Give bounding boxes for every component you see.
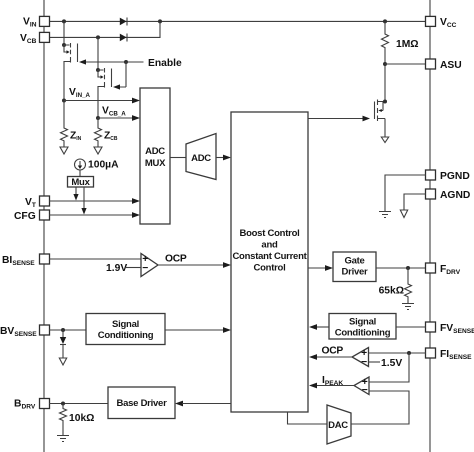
svg-text:Driver: Driver — [342, 267, 369, 278]
svg-text:1.9V: 1.9V — [106, 263, 127, 274]
svg-text:ADC: ADC — [191, 153, 211, 164]
node VCB junction — [96, 35, 100, 39]
wire IPEAK out — [309, 383, 354, 389]
wire CFG to ADC MUX — [49, 212, 140, 218]
label 1.5V — [381, 358, 402, 369]
wire Signal Conditioning F out — [309, 324, 329, 330]
pin pad AGND — [426, 189, 436, 199]
wire Mux to VT line — [73, 187, 78, 201]
wire Gate Driver to FDRV — [376, 267, 426, 269]
label 10k — [69, 413, 94, 424]
label IPEAK — [322, 375, 343, 387]
resistor 10k — [60, 404, 67, 436]
node BDRV junction — [61, 402, 65, 406]
ground arrow ZIN — [60, 147, 68, 154]
wire FVSENSE to Signal Conditioning F — [396, 326, 426, 328]
svg-text:ADC: ADC — [145, 146, 165, 157]
wire VCB_A to ADC MUX — [98, 115, 140, 121]
wire Signal Conditioning B out — [165, 327, 231, 333]
wire BDRV to Base Driver — [49, 403, 108, 405]
wire 1.9V to OCP — [126, 267, 141, 269]
wire control to DAC — [288, 412, 328, 424]
svg-text:Gate: Gate — [344, 256, 364, 267]
node VIN-VCB join — [158, 19, 162, 23]
block Base Driver — [108, 387, 175, 419]
svg-text:Control: Control — [253, 263, 285, 274]
ground arrow ZCB — [94, 147, 102, 154]
block Mux — [68, 177, 94, 189]
wire control block to Base Driver — [175, 401, 231, 407]
svg-text:−: − — [142, 263, 148, 274]
svg-text:CFG: CFG — [14, 211, 36, 222]
svg-text:Enable: Enable — [148, 58, 182, 69]
ground earth 65k — [402, 304, 414, 310]
svg-text:10kΩ: 10kΩ — [69, 413, 94, 424]
pin label FDRV — [440, 264, 461, 276]
transistor Q3 NMOS ASU — [375, 64, 388, 137]
pin label VCC — [440, 17, 457, 29]
pin pad PGND — [426, 170, 436, 180]
node VCC resistor tap — [383, 19, 387, 23]
transistor Q2 PMOS VCB switch — [96, 37, 112, 118]
block DAC — [327, 405, 351, 444]
wire FISENSE to IPEAK comparator — [369, 353, 409, 382]
wire BVSENSE to signal conditioning — [49, 329, 86, 331]
wire BISENSE to OCP — [49, 258, 141, 260]
label ZCB — [104, 131, 118, 143]
diode D1 — [120, 18, 127, 26]
svg-text:PGND: PGND — [440, 171, 470, 182]
pin pad BDRV — [40, 399, 50, 409]
block Signal Conditioning B — [86, 314, 165, 345]
pin pad VCB — [40, 32, 50, 42]
svg-text:AGND: AGND — [440, 190, 470, 201]
wire PGND to ground — [385, 175, 426, 211]
pin label BISENSE — [2, 255, 35, 267]
transistor Q1 PMOS VIN switch — [62, 21, 78, 100]
pin pad FISENSE — [426, 348, 436, 358]
pin label AGND — [440, 190, 470, 201]
pin pad ASU — [426, 59, 436, 69]
pin label BVSENSE — [0, 326, 37, 338]
wire ASU — [385, 63, 426, 65]
current source 100uA — [75, 159, 86, 177]
label 100uA — [88, 160, 119, 171]
node VIN junction — [62, 19, 66, 23]
ground earth PGND — [379, 212, 391, 218]
node FISENSE junction — [407, 351, 411, 355]
block Signal Conditioning F — [329, 314, 396, 340]
svg-text:Signal: Signal — [112, 319, 139, 330]
svg-text:Base Driver: Base Driver — [116, 398, 167, 409]
label VCB_A — [102, 106, 126, 118]
wire AGND to ground — [404, 194, 426, 210]
svg-text:−: − — [362, 385, 368, 396]
svg-text:Boost Control: Boost Control — [239, 228, 299, 239]
node VIN_A junction — [62, 99, 66, 103]
wire DAC to IPEAK comparator — [351, 391, 409, 424]
wire FISENSE to OCP F — [369, 352, 427, 354]
pin label FISENSE — [440, 349, 472, 361]
pin label PGND — [440, 171, 470, 182]
pin label FVSENSE — [440, 323, 474, 335]
wire VCB rail — [49, 21, 160, 37]
svg-text:100µA: 100µA — [88, 160, 119, 171]
block ADC — [186, 134, 216, 180]
label VIN_A — [69, 87, 91, 99]
diode D2 — [120, 34, 127, 42]
wire control to Gate Driver — [308, 265, 333, 271]
pin pad VT — [40, 196, 50, 206]
label OCP B — [165, 254, 187, 265]
pin label BDRV — [14, 399, 36, 411]
svg-text:1.5V: 1.5V — [381, 358, 402, 369]
block Boost Control — [231, 112, 308, 412]
pin pad FDRV — [426, 263, 436, 273]
label 1.9V — [106, 263, 127, 274]
block ADC MUX — [140, 88, 170, 224]
wire control to NMOS gate — [308, 116, 370, 122]
pin pad BISENSE — [40, 254, 50, 264]
wire 1.5V to OCP F — [369, 361, 381, 363]
svg-text:OCP: OCP — [322, 346, 344, 357]
pin pad FVSENSE — [426, 322, 436, 332]
node VCB_A junction — [96, 116, 100, 120]
wire OCP B out — [158, 262, 231, 268]
wire right bus — [429, 0, 431, 452]
pin label VCB — [20, 33, 37, 45]
ground arrow AGND — [400, 210, 407, 218]
node ASU junction — [383, 62, 387, 66]
resistor 1M — [382, 21, 389, 64]
ground arrow BVSENSE — [59, 358, 66, 365]
ground arrow NMOS source — [381, 137, 388, 143]
pin pad CFG — [40, 210, 50, 220]
svg-text:OCP: OCP — [165, 254, 187, 265]
svg-text:Mux: Mux — [71, 177, 90, 188]
block Gate Driver — [333, 252, 376, 282]
resistor ZIN — [61, 101, 68, 148]
resistor ZCB — [95, 118, 102, 147]
pin label ASU — [440, 60, 462, 71]
label 65k — [379, 286, 404, 297]
node BVSENSE junction — [61, 328, 65, 332]
node Enable junction — [124, 60, 128, 64]
svg-text:ASU: ASU — [440, 60, 462, 71]
node FDRV junction — [406, 266, 410, 270]
wire ADC to control block — [216, 155, 231, 161]
op-amp OCP comparator F — [352, 348, 369, 368]
wire VT to ADC MUX — [49, 198, 140, 204]
label Enable — [148, 58, 182, 69]
wire VIN_A to ADC MUX — [64, 98, 140, 104]
svg-text:DAC: DAC — [328, 420, 348, 431]
wire Mux to CFG line — [81, 187, 86, 215]
pin pad VIN — [40, 16, 50, 26]
pin label VIN — [23, 17, 37, 29]
label OCP F — [322, 346, 344, 357]
label ZIN — [70, 131, 82, 143]
diode D3 clamp — [60, 330, 66, 358]
svg-text:Conditioning: Conditioning — [335, 328, 391, 339]
svg-text:and: and — [261, 240, 278, 251]
svg-text:65kΩ: 65kΩ — [379, 286, 404, 297]
svg-text:Constant Current: Constant Current — [232, 251, 307, 262]
svg-text:MUX: MUX — [145, 158, 166, 169]
wire OCP F out — [309, 354, 352, 360]
svg-text:1MΩ: 1MΩ — [396, 39, 419, 50]
resistor 65k — [405, 268, 412, 303]
pin label VT — [25, 197, 36, 209]
wire left bus — [43, 0, 45, 452]
svg-text:Signal: Signal — [349, 317, 376, 328]
op-amp IPEAK comparator — [354, 377, 369, 396]
label 1M — [396, 39, 419, 50]
pin pad BVSENSE — [40, 325, 50, 335]
pin pad VCC — [426, 16, 436, 26]
wire ADC MUX to ADC — [170, 157, 186, 159]
svg-text:−: − — [361, 357, 367, 368]
ground earth BDRV — [57, 436, 69, 442]
wire Enable to Q1 gate — [79, 59, 144, 64]
op-amp OCP comparator B — [141, 254, 158, 277]
svg-text:Conditioning: Conditioning — [98, 330, 154, 341]
wire VIN rail — [49, 20, 426, 22]
pin label CFG — [14, 211, 36, 222]
wire Enable to Q2 gate — [113, 62, 126, 90]
